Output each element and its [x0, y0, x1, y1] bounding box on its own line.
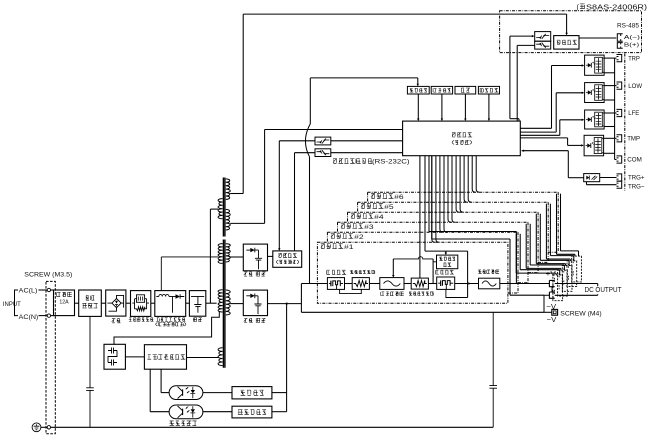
- capacitor C2 minus-V to PE: [492, 312, 494, 385]
- rectifier bridge box: [106, 290, 126, 316]
- stacked output terminal pairs: [553, 275, 563, 301]
- svg-text:DC OUTPUT: DC OUTPUT: [585, 287, 623, 294]
- branch circuit dashed boxes 1-6: [317, 242, 508, 303]
- svg-text:#6: #6: [394, 194, 404, 201]
- wire to +V terminal: [500, 283, 550, 285]
- RS-485 option dashed box: [500, 11, 642, 53]
- input bracket: [15, 290, 19, 316]
- disconnect circuit 2 box: [437, 277, 455, 289]
- winding primary: [218, 290, 222, 312]
- wire coupler to replacement calc 2: [295, 152, 316, 154]
- wire main to TMP: [520, 137, 567, 139]
- transformer T1 lower core: [222, 240, 224, 368]
- photocoupler LOW output: [585, 83, 605, 103]
- overvoltage detection box: [232, 406, 272, 418]
- current detect resistor 2 box: [411, 278, 428, 289]
- wire calc to output sense: [428, 156, 430, 232]
- svg-text:#1: #1: [344, 244, 354, 251]
- svg-text:12A: 12A: [59, 300, 69, 306]
- rectifier-smoother 2 box: [243, 290, 267, 316]
- smoothing box: [189, 291, 205, 317]
- transformer T1 upper core: [222, 178, 224, 237]
- wire main to TRP: [520, 127, 551, 129]
- wire to feedback winding: [187, 357, 219, 359]
- svg-text:#4: #4: [374, 214, 384, 221]
- wire driver to coupler 2: [149, 369, 151, 412]
- terminal -V screw M4: [552, 309, 558, 315]
- noise filter box: [79, 290, 102, 316]
- wire LOW output: [604, 85, 616, 87]
- wire TRG- output: [586, 182, 588, 185]
- wire coupler to replacement calc 1: [279, 140, 315, 142]
- communication circuit box: [554, 36, 579, 50]
- winding RS-485 supply: [226, 179, 231, 200]
- wire to RS-485 terminals: [579, 37, 616, 39]
- wire: [101, 302, 105, 304]
- svg-text:#5: #5: [384, 204, 394, 211]
- wire: [75, 302, 79, 304]
- wire coupler to main 1: [510, 35, 534, 37]
- wire resistor sense with hop: [393, 257, 433, 259]
- wire: [151, 302, 155, 304]
- svg-text:TRG−: TRG−: [628, 183, 645, 190]
- wire: [126, 302, 131, 304]
- label -V: [545, 303, 557, 311]
- terminal strip dashed line: [624, 54, 626, 191]
- wire main box supply: [265, 129, 403, 131]
- wire AC input leads: [39, 289, 48, 291]
- wire calc to resistor sense: [419, 156, 421, 278]
- wire PE rail: [51, 426, 494, 428]
- rectifier-smoother 1 box: [243, 244, 267, 271]
- photocoupler TMP output: [584, 135, 604, 156]
- wire winding tap: [230, 222, 264, 224]
- photocoupler TRP output: [585, 55, 605, 75]
- wire LFE output: [604, 112, 616, 114]
- winding rect-smooth 1: [226, 244, 230, 262]
- wire RS-485 supply top run: [242, 14, 244, 193]
- photocoupler TRG input: [584, 174, 600, 182]
- svg-text:LFE: LFE: [628, 110, 640, 117]
- wire calc to -V rail: [431, 156, 433, 239]
- driver control circuit box: [144, 345, 186, 370]
- winding secondary output: [226, 290, 230, 315]
- svg-text:TMP: TMP: [627, 136, 640, 143]
- fan wires to branch tops: [436, 156, 439, 243]
- label RS-232C communication: [333, 159, 372, 164]
- wire winding tap: [230, 303, 243, 305]
- wire: [125, 356, 144, 358]
- thermal fuse box: [380, 278, 404, 290]
- svg-text:RS-485: RS-485: [617, 23, 639, 30]
- voltage detection box: [232, 387, 272, 399]
- wire: [186, 302, 190, 304]
- terminal B(+): [617, 43, 622, 49]
- terminal +V: [549, 280, 554, 286]
- svg-text:A(−): A(−): [624, 35, 640, 41]
- photocoupler feedback 2: [169, 405, 203, 419]
- svg-text:#2: #2: [354, 234, 364, 241]
- wires to output terminal pairs: [515, 234, 517, 273]
- wire winding tap: [230, 256, 243, 258]
- wire driver to coupler 1: [160, 369, 162, 392]
- wire: [455, 283, 479, 285]
- wire output riser: [300, 284, 302, 313]
- output terminal brackets: [617, 55, 622, 62]
- winding main supply: [226, 209, 230, 230]
- svg-text:SCREW (M3.5): SCREW (M3.5): [24, 271, 72, 278]
- svg-text:−V: −V: [547, 315, 557, 324]
- DC OUTPUT callout: [555, 283, 598, 285]
- svg-text:INPUT: INPUT: [3, 301, 21, 308]
- wire: [268, 255, 273, 257]
- wire COM bus: [614, 58, 616, 159]
- current fuse box: [479, 278, 500, 289]
- photocoupler LFE output: [585, 110, 605, 129]
- harmonic suppression PFC box: [155, 291, 186, 317]
- wire PFC feedback: [160, 257, 162, 291]
- svg-text:B(+): B(+): [624, 43, 639, 49]
- terminal PE: [47, 426, 50, 429]
- terminal AC(N): [47, 314, 50, 317]
- wire to transformer primary: [206, 302, 217, 304]
- replacement timing calc box: [273, 251, 302, 267]
- svg-text:#3: #3: [364, 224, 374, 231]
- wire couplers to main box: [331, 140, 403, 142]
- label photocoupler: [170, 421, 197, 426]
- photocoupler RS-485 pair: [535, 32, 551, 42]
- wire output voltage sense: [310, 77, 418, 79]
- wire branch main: [301, 283, 327, 285]
- wire TRG+ output: [600, 177, 617, 179]
- terminal -V: [549, 292, 554, 298]
- svg-text:+V: +V: [546, 269, 556, 278]
- wire calc to disconnect loop: [424, 156, 426, 251]
- svg-text:LOW: LOW: [628, 83, 643, 90]
- terminal strip M3.5 dashed box: [46, 281, 55, 433]
- photocoupler RS-232C pair: [315, 137, 331, 145]
- wire winding tap: [210, 208, 218, 210]
- winding aux: [218, 199, 222, 219]
- wire TRG to main: [522, 150, 525, 152]
- detector boxes voltage temperature switch display: [407, 86, 429, 94]
- wire sense loop: [340, 289, 362, 293]
- fuse F1 12A box: [54, 290, 75, 316]
- ground symbol: [32, 423, 41, 432]
- winding feedback: [218, 348, 222, 366]
- terminal AC(L): [47, 288, 50, 291]
- svg-text:COM: COM: [627, 157, 642, 164]
- svg-text:(RS-232C): (RS-232C): [372, 159, 410, 165]
- voltage detect circuit box: [437, 255, 458, 269]
- wire main to LOW: [520, 131, 556, 133]
- wire coupler to main 2: [517, 44, 535, 46]
- wire COM output: [615, 159, 617, 161]
- svg-text:AC(L): AC(L): [19, 287, 38, 294]
- current detect resistor 1 box: [352, 278, 369, 290]
- winding PFC sense: [218, 244, 222, 264]
- photocoupler feedback 1: [169, 386, 203, 400]
- wire to voltage detectors: [286, 304, 288, 412]
- inrush current limiter box: [131, 291, 151, 317]
- wire TMP output: [604, 137, 617, 139]
- wire DC bus with node: [268, 303, 302, 305]
- capacitor C1 filter to PE: [89, 316, 91, 387]
- wire TRP output: [604, 57, 616, 59]
- terminal A(-): [617, 34, 622, 42]
- svg-text:AC(N): AC(N): [19, 314, 39, 321]
- svg-text:TRP: TRP: [628, 55, 640, 62]
- wire main to LFE: [520, 134, 560, 136]
- svg-text:SCREW (M4): SCREW (M4): [560, 310, 601, 317]
- wire primary bus: [209, 209, 211, 303]
- wire winding tap: [230, 193, 243, 195]
- wire primary return to switch: [114, 312, 219, 345]
- wire -V to rail: [544, 295, 549, 312]
- wire -V rail: [301, 311, 544, 313]
- svg-text:TRG+: TRG+: [628, 175, 645, 182]
- switching circuit box: [104, 344, 125, 369]
- disconnect circuit 1 box: [327, 278, 344, 290]
- main calculation circuit box U1: [403, 121, 521, 156]
